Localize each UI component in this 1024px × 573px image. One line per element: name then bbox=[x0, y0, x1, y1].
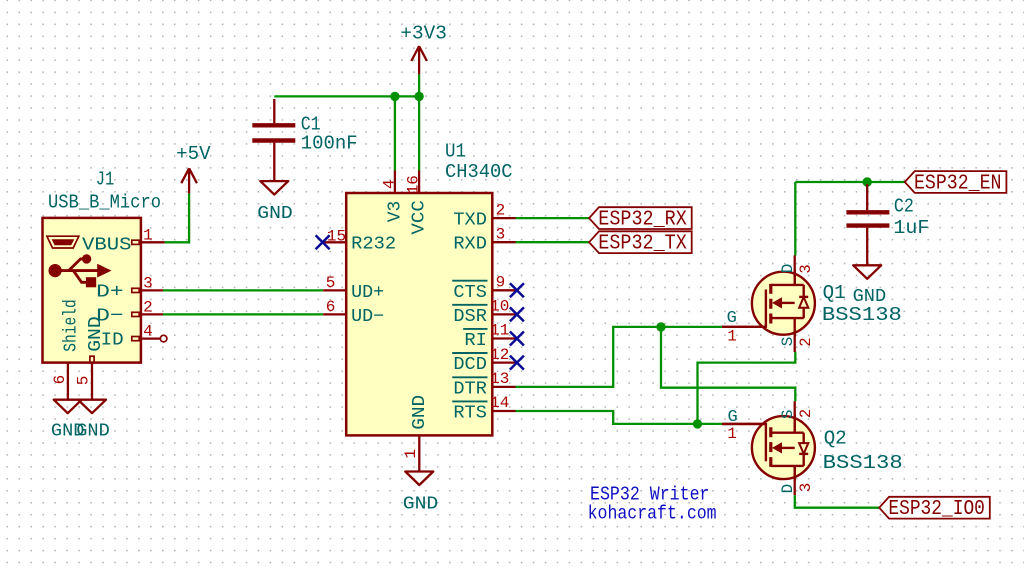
wire EN to Q1 drain bbox=[794, 182, 796, 256]
svg-text:DSR: DSR bbox=[453, 307, 487, 327]
svg-text:BSS138: BSS138 bbox=[823, 452, 903, 474]
svg-text:14: 14 bbox=[490, 394, 509, 412]
svg-text:RI: RI bbox=[464, 331, 487, 351]
global label ESP32_RX bbox=[589, 207, 692, 229]
J1 pin 3 D+ bbox=[141, 289, 163, 291]
svg-text:3: 3 bbox=[797, 483, 815, 492]
svg-text:V3: V3 bbox=[385, 201, 405, 223]
svg-text:+5V: +5V bbox=[176, 143, 211, 165]
no-connect X pin 12 bbox=[510, 356, 524, 370]
svg-text:1uF: 1uF bbox=[893, 217, 929, 239]
Q1 drain pin 3 bbox=[794, 255, 796, 285]
svg-text:S: S bbox=[779, 337, 797, 347]
svg-text:3: 3 bbox=[496, 225, 506, 243]
svg-text:ESP32_EN: ESP32_EN bbox=[914, 173, 1002, 196]
U1 pin 15 R232 bbox=[323, 241, 347, 243]
svg-text:13: 13 bbox=[490, 370, 509, 388]
svg-text:GND: GND bbox=[257, 203, 293, 224]
J1 pin 5 GND bbox=[91, 363, 93, 400]
IC U1 CH340C body bbox=[346, 193, 492, 435]
svg-text:5: 5 bbox=[75, 376, 93, 386]
svg-text:3: 3 bbox=[143, 274, 153, 292]
transistor Q2 BSS138 symbol bbox=[752, 416, 815, 479]
svg-text:DTR: DTR bbox=[453, 380, 487, 400]
global label ESP32_TX bbox=[589, 231, 692, 253]
power symbol +5V bbox=[181, 168, 197, 193]
svg-text:2: 2 bbox=[797, 337, 815, 346]
no-connect X pin 10 bbox=[510, 307, 524, 321]
wire TXD to ESP32_RX bbox=[516, 217, 590, 219]
wire RXD to ESP32_TX bbox=[516, 241, 590, 243]
svg-text:Q1: Q1 bbox=[823, 282, 846, 304]
USB receptacle icon bbox=[47, 236, 79, 248]
svg-text:RTS: RTS bbox=[453, 404, 487, 424]
U1 pin 9 CTS bbox=[492, 289, 515, 291]
U1 pin 6 UD- bbox=[323, 313, 346, 315]
svg-text:4: 4 bbox=[143, 323, 153, 341]
wire ESP32_EN net bbox=[795, 181, 905, 183]
svg-text:VCC: VCC bbox=[410, 200, 430, 235]
wire RTS branch to Q1 source bbox=[698, 352, 796, 424]
wire D- to UD- bbox=[163, 313, 323, 315]
svg-text:BSS138: BSS138 bbox=[822, 304, 902, 326]
junction at C2 / ESP32_EN bbox=[863, 177, 872, 186]
Q2 source pin 2 bbox=[794, 401, 796, 432]
transistor Q1 BSS138 symbol bbox=[752, 272, 815, 335]
ground triangle U1 bbox=[405, 472, 433, 486]
U1 pin 2 TXD bbox=[492, 217, 515, 219]
Q1 source pin 2 bbox=[794, 335, 796, 352]
svg-text:9: 9 bbox=[496, 274, 506, 292]
wire Q2 drain to ESP32_IO0 bbox=[795, 495, 879, 508]
svg-text:GND: GND bbox=[85, 316, 106, 352]
J1 pin 1 VBUS bbox=[141, 241, 165, 243]
svg-text:UD+: UD+ bbox=[351, 283, 384, 303]
svg-text:16: 16 bbox=[404, 175, 422, 194]
wire +3V3 rail horizontal bbox=[274, 95, 419, 97]
svg-text:11: 11 bbox=[490, 322, 509, 340]
capacitor C1 bbox=[252, 99, 295, 181]
wire to +3V3 symbol bbox=[418, 74, 420, 96]
connector J1 USB_B_Micro body bbox=[43, 218, 141, 363]
svg-text:GND: GND bbox=[76, 421, 110, 442]
svg-text:U1: U1 bbox=[445, 141, 466, 163]
svg-text:S: S bbox=[779, 409, 797, 419]
svg-text:4: 4 bbox=[381, 179, 399, 189]
Q1 gate pin 1 bbox=[723, 326, 766, 328]
svg-text:3: 3 bbox=[797, 264, 815, 273]
svg-text:2: 2 bbox=[496, 201, 506, 219]
svg-text:1: 1 bbox=[727, 425, 737, 443]
svg-text:CH340C: CH340C bbox=[445, 161, 513, 183]
svg-text:+3V3: +3V3 bbox=[400, 22, 447, 44]
ground triangle J1 shield bbox=[54, 400, 82, 414]
svg-text:Shield: Shield bbox=[61, 299, 82, 352]
wire D+ to UD+ bbox=[163, 289, 323, 291]
svg-text:USB_B_Micro: USB_B_Micro bbox=[48, 191, 161, 213]
power symbol +3V3 bbox=[411, 46, 427, 74]
svg-text:5: 5 bbox=[326, 274, 336, 292]
wire VBUS to +5V bbox=[165, 193, 190, 242]
svg-text:2: 2 bbox=[797, 409, 815, 418]
svg-text:ESP32_TX: ESP32_TX bbox=[598, 233, 687, 256]
no-connect X pin 11 bbox=[510, 332, 524, 346]
wire to U1 pin 4 bbox=[394, 96, 396, 170]
U1 pin 16 VCC bbox=[418, 171, 420, 194]
Q2 gate pin 1 bbox=[723, 423, 766, 425]
wire to U1 pin 16 bbox=[418, 96, 420, 170]
wire DTR to Q1 gate bbox=[516, 327, 724, 387]
junction DTR net bbox=[656, 322, 665, 331]
svg-text:10: 10 bbox=[490, 298, 509, 316]
svg-text:6: 6 bbox=[51, 375, 69, 385]
U1 pin 1 GND bbox=[418, 435, 420, 471]
global label ESP32_EN bbox=[905, 171, 1007, 193]
U1 pin 13 DTR bbox=[492, 386, 515, 388]
U1 pin 10 DSR bbox=[492, 313, 515, 315]
svg-text:CTS: CTS bbox=[453, 283, 487, 303]
no-connect X pin 15 bbox=[316, 235, 330, 249]
svg-text:ESP32_RX: ESP32_RX bbox=[598, 209, 687, 232]
U1 pin 11 RI bbox=[492, 337, 515, 339]
svg-text:UD−: UD− bbox=[351, 307, 384, 327]
global label ESP32_IO0 bbox=[879, 497, 990, 519]
U1 pin 14 RTS bbox=[492, 410, 515, 412]
svg-text:J1: J1 bbox=[96, 168, 115, 190]
svg-text:1: 1 bbox=[402, 449, 420, 459]
no-connect X pin 9 bbox=[510, 283, 524, 297]
svg-text:6: 6 bbox=[326, 298, 336, 316]
U1 pin 3 RXD bbox=[492, 241, 515, 243]
svg-text:TXD: TXD bbox=[453, 210, 487, 230]
svg-text:DCD: DCD bbox=[453, 355, 487, 375]
J1 pin 6 Shield bbox=[67, 363, 69, 400]
svg-text:Q2: Q2 bbox=[824, 427, 847, 449]
U1 pin 4 V3 bbox=[394, 171, 396, 194]
svg-text:1: 1 bbox=[143, 226, 153, 244]
ground triangle J1 gnd bbox=[78, 400, 106, 414]
junction at U1 pin16 rail bbox=[414, 92, 423, 101]
U1 pin 5 UD+ bbox=[323, 289, 346, 291]
svg-text:GND: GND bbox=[403, 494, 439, 515]
svg-text:12: 12 bbox=[490, 346, 509, 364]
wire DTR branch to Q2 source bbox=[661, 327, 795, 401]
USB trident icon bbox=[49, 254, 112, 287]
svg-text:D: D bbox=[779, 264, 797, 274]
J1 pin 2 D- bbox=[141, 313, 163, 315]
svg-text:R232: R232 bbox=[351, 235, 396, 255]
wire RTS to Q2 gate bbox=[516, 411, 724, 424]
J1 pin 4 ID bbox=[141, 337, 160, 339]
svg-text:GND: GND bbox=[410, 395, 430, 430]
svg-text:100nF: 100nF bbox=[301, 133, 358, 155]
junction RTS net bbox=[693, 419, 702, 428]
svg-text:G: G bbox=[727, 309, 737, 328]
svg-text:D: D bbox=[779, 484, 797, 494]
svg-text:1: 1 bbox=[727, 328, 737, 346]
junction at U1 pin4 rail bbox=[390, 92, 399, 101]
svg-text:RXD: RXD bbox=[453, 235, 487, 255]
U1 pin 12 DCD bbox=[492, 361, 515, 363]
capacitor C2 bbox=[846, 184, 889, 265]
svg-text:ESP32_IO0: ESP32_IO0 bbox=[888, 498, 985, 521]
svg-text:D+: D+ bbox=[96, 281, 124, 302]
svg-text:C2: C2 bbox=[894, 196, 914, 218]
svg-text:2: 2 bbox=[143, 298, 153, 316]
svg-text:VBUS: VBUS bbox=[82, 234, 132, 255]
Q2 drain pin 3 bbox=[794, 466, 796, 495]
ground triangle C1 bbox=[260, 181, 288, 195]
svg-text:kohacraft.com: kohacraft.com bbox=[588, 503, 717, 525]
ground triangle C2 bbox=[853, 265, 881, 279]
